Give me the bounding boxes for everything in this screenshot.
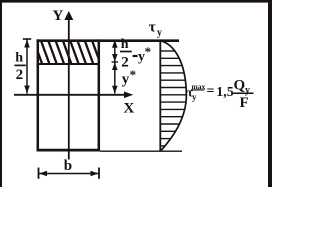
- frame left border: [0, 0, 2, 187]
- b label: [64, 158, 72, 174]
- svg-text:1,5: 1,5: [216, 85, 234, 100]
- right dimension line: h/2 - y* segment and y* segment: [112, 40, 118, 94]
- cross-section rectangle right edge: [98, 39, 101, 151]
- svg-text:h: h: [15, 50, 23, 65]
- tau_y^max = 1,5 Qy/F formula: [187, 78, 254, 112]
- svg-text:Q: Q: [234, 78, 246, 94]
- svg-text:*: *: [130, 67, 137, 82]
- svg-text:2: 2: [121, 54, 129, 70]
- Y axis label: [53, 8, 64, 24]
- h/2 - y* label: [120, 37, 151, 70]
- X axis arrowhead: [124, 92, 133, 99]
- Y axis line (vertical centerline): [68, 17, 70, 160]
- svg-text:y: y: [157, 28, 162, 39]
- svg-text:2: 2: [16, 67, 24, 83]
- h/2 dimension line (left): [23, 39, 31, 94]
- hatched band diagonal hatching: [34, 42, 100, 64]
- b dimension line (bottom): [39, 168, 100, 179]
- X axis label: [124, 101, 135, 117]
- stress diagram vertical zero axis: [159, 40, 161, 151]
- cross-section rectangle left edge: [37, 39, 40, 151]
- frame top border: [0, 0, 272, 3]
- svg-text:X: X: [124, 101, 135, 117]
- svg-text:Y: Y: [53, 8, 64, 24]
- svg-text:F: F: [240, 95, 249, 111]
- hatched band bottom line: [37, 63, 101, 65]
- svg-text:y: y: [192, 92, 197, 102]
- X axis line (horizontal centroid line): [14, 94, 128, 96]
- svg-text:y: y: [122, 72, 130, 88]
- svg-text:τ: τ: [149, 20, 156, 36]
- svg-text:*: *: [145, 44, 152, 59]
- cross-section rectangle top edge (extends right over stress diagram): [37, 39, 180, 42]
- frame right border: [268, 0, 272, 187]
- stress diagram baseline (bottom, extends right from rectangle): [100, 150, 182, 152]
- stress diagram parabolic curve: [161, 41, 187, 151]
- svg-text:h: h: [121, 37, 129, 52]
- h/2 label (left): h: [14, 50, 25, 83]
- tau_y label (top of stress diagram): [149, 20, 162, 39]
- svg-text:=: =: [207, 84, 215, 99]
- cross-section rectangle bottom edge: [37, 149, 101, 152]
- Y axis arrowhead: [64, 11, 73, 20]
- svg-text:b: b: [64, 158, 72, 174]
- stress diagram horizontal hatch lines: [161, 51, 187, 146]
- y* label (lower): [122, 67, 136, 88]
